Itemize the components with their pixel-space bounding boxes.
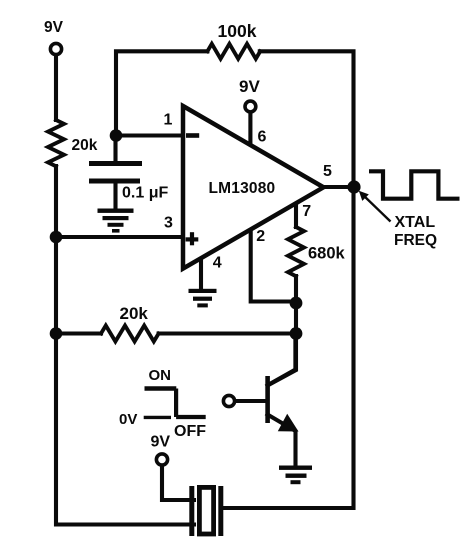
svg-text:5: 5 bbox=[323, 163, 332, 180]
svg-text:0.1 μF: 0.1 μF bbox=[122, 185, 168, 202]
svg-text:9V: 9V bbox=[44, 19, 64, 36]
svg-text:100k: 100k bbox=[218, 21, 257, 41]
svg-text:680k: 680k bbox=[308, 245, 346, 263]
svg-text:XTAL: XTAL bbox=[395, 214, 436, 231]
svg-text:0V: 0V bbox=[119, 411, 137, 428]
svg-text:20k: 20k bbox=[120, 304, 149, 323]
svg-text:LM13080: LM13080 bbox=[209, 180, 276, 197]
svg-text:9V: 9V bbox=[239, 77, 260, 96]
svg-text:7: 7 bbox=[302, 203, 311, 220]
svg-text:2: 2 bbox=[256, 228, 265, 245]
svg-text:FREQ: FREQ bbox=[394, 232, 437, 249]
svg-text:4: 4 bbox=[213, 255, 222, 272]
svg-text:ON: ON bbox=[149, 367, 172, 384]
svg-text:20k: 20k bbox=[72, 137, 98, 154]
svg-text:1: 1 bbox=[164, 112, 173, 129]
svg-text:OFF: OFF bbox=[174, 423, 206, 440]
svg-text:9V: 9V bbox=[151, 434, 171, 451]
svg-text:6: 6 bbox=[258, 129, 267, 146]
svg-text:3: 3 bbox=[164, 215, 173, 232]
